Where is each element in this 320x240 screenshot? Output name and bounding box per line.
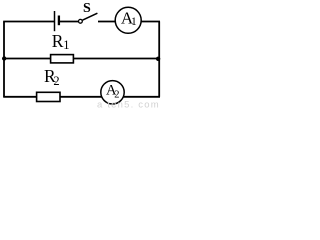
svg-text:a ten5. com: a ten5. com [97,99,160,109]
svg-text:2: 2 [53,74,59,88]
svg-text:R: R [52,31,64,51]
svg-text:1: 1 [63,38,69,52]
svg-text:1: 1 [131,16,137,28]
svg-text:S: S [83,1,91,16]
